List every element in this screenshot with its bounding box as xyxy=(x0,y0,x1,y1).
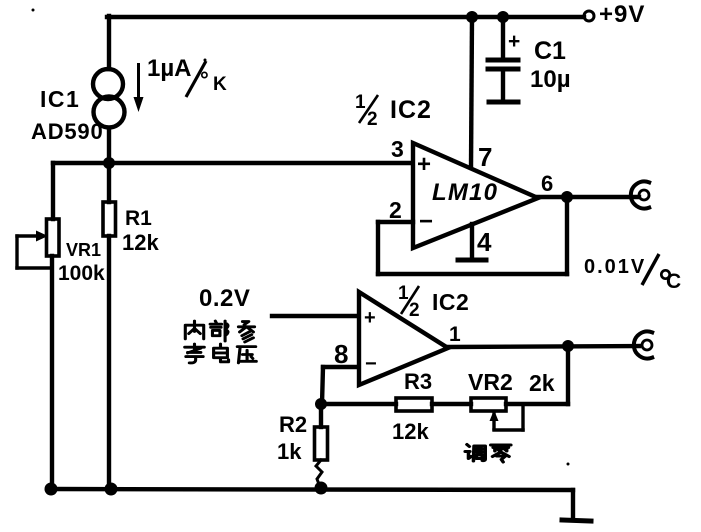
svg-text:R3: R3 xyxy=(404,369,432,394)
svg-text:1: 1 xyxy=(449,323,461,346)
svg-text:12k: 12k xyxy=(122,230,159,255)
svg-text:2k: 2k xyxy=(529,370,555,396)
svg-text:VR2: VR2 xyxy=(468,369,513,395)
svg-text:0.01V: 0.01V xyxy=(584,256,646,278)
svg-text:12k: 12k xyxy=(392,419,429,444)
svg-text:6: 6 xyxy=(541,171,553,196)
svg-text:2: 2 xyxy=(367,109,378,130)
svg-text:100k: 100k xyxy=(58,262,105,285)
svg-text:°: ° xyxy=(200,67,209,92)
svg-text:AD590: AD590 xyxy=(31,119,103,144)
svg-text:VR1: VR1 xyxy=(66,240,101,260)
svg-text:1: 1 xyxy=(398,283,409,304)
svg-text:C1: C1 xyxy=(534,37,566,65)
svg-text:1: 1 xyxy=(355,92,366,113)
svg-text:2: 2 xyxy=(389,197,402,223)
svg-text:1µA: 1µA xyxy=(147,55,192,82)
svg-text:4: 4 xyxy=(477,227,492,257)
svg-text:IC2: IC2 xyxy=(432,289,469,315)
svg-text:K: K xyxy=(213,74,227,95)
svg-text:2: 2 xyxy=(409,300,420,321)
svg-text:−: − xyxy=(419,208,433,235)
svg-text:3: 3 xyxy=(391,136,404,162)
svg-text:IC2: IC2 xyxy=(390,96,432,124)
svg-text:1k: 1k xyxy=(277,439,302,464)
svg-text:C: C xyxy=(666,270,681,293)
svg-text:−: − xyxy=(365,353,377,375)
svg-text:+9V: +9V xyxy=(599,1,645,28)
svg-text:7: 7 xyxy=(478,142,492,172)
svg-text:IC1: IC1 xyxy=(40,86,80,112)
svg-text:10µ: 10µ xyxy=(530,66,571,93)
svg-text:R2: R2 xyxy=(279,412,307,437)
svg-text:+: + xyxy=(417,151,431,178)
svg-text:LM10: LM10 xyxy=(432,179,498,206)
svg-text:R1: R1 xyxy=(125,207,152,230)
svg-text:+: + xyxy=(364,307,376,329)
svg-text:8: 8 xyxy=(334,339,348,369)
svg-text:+: + xyxy=(508,30,520,53)
svg-text:0.2V: 0.2V xyxy=(199,285,250,312)
